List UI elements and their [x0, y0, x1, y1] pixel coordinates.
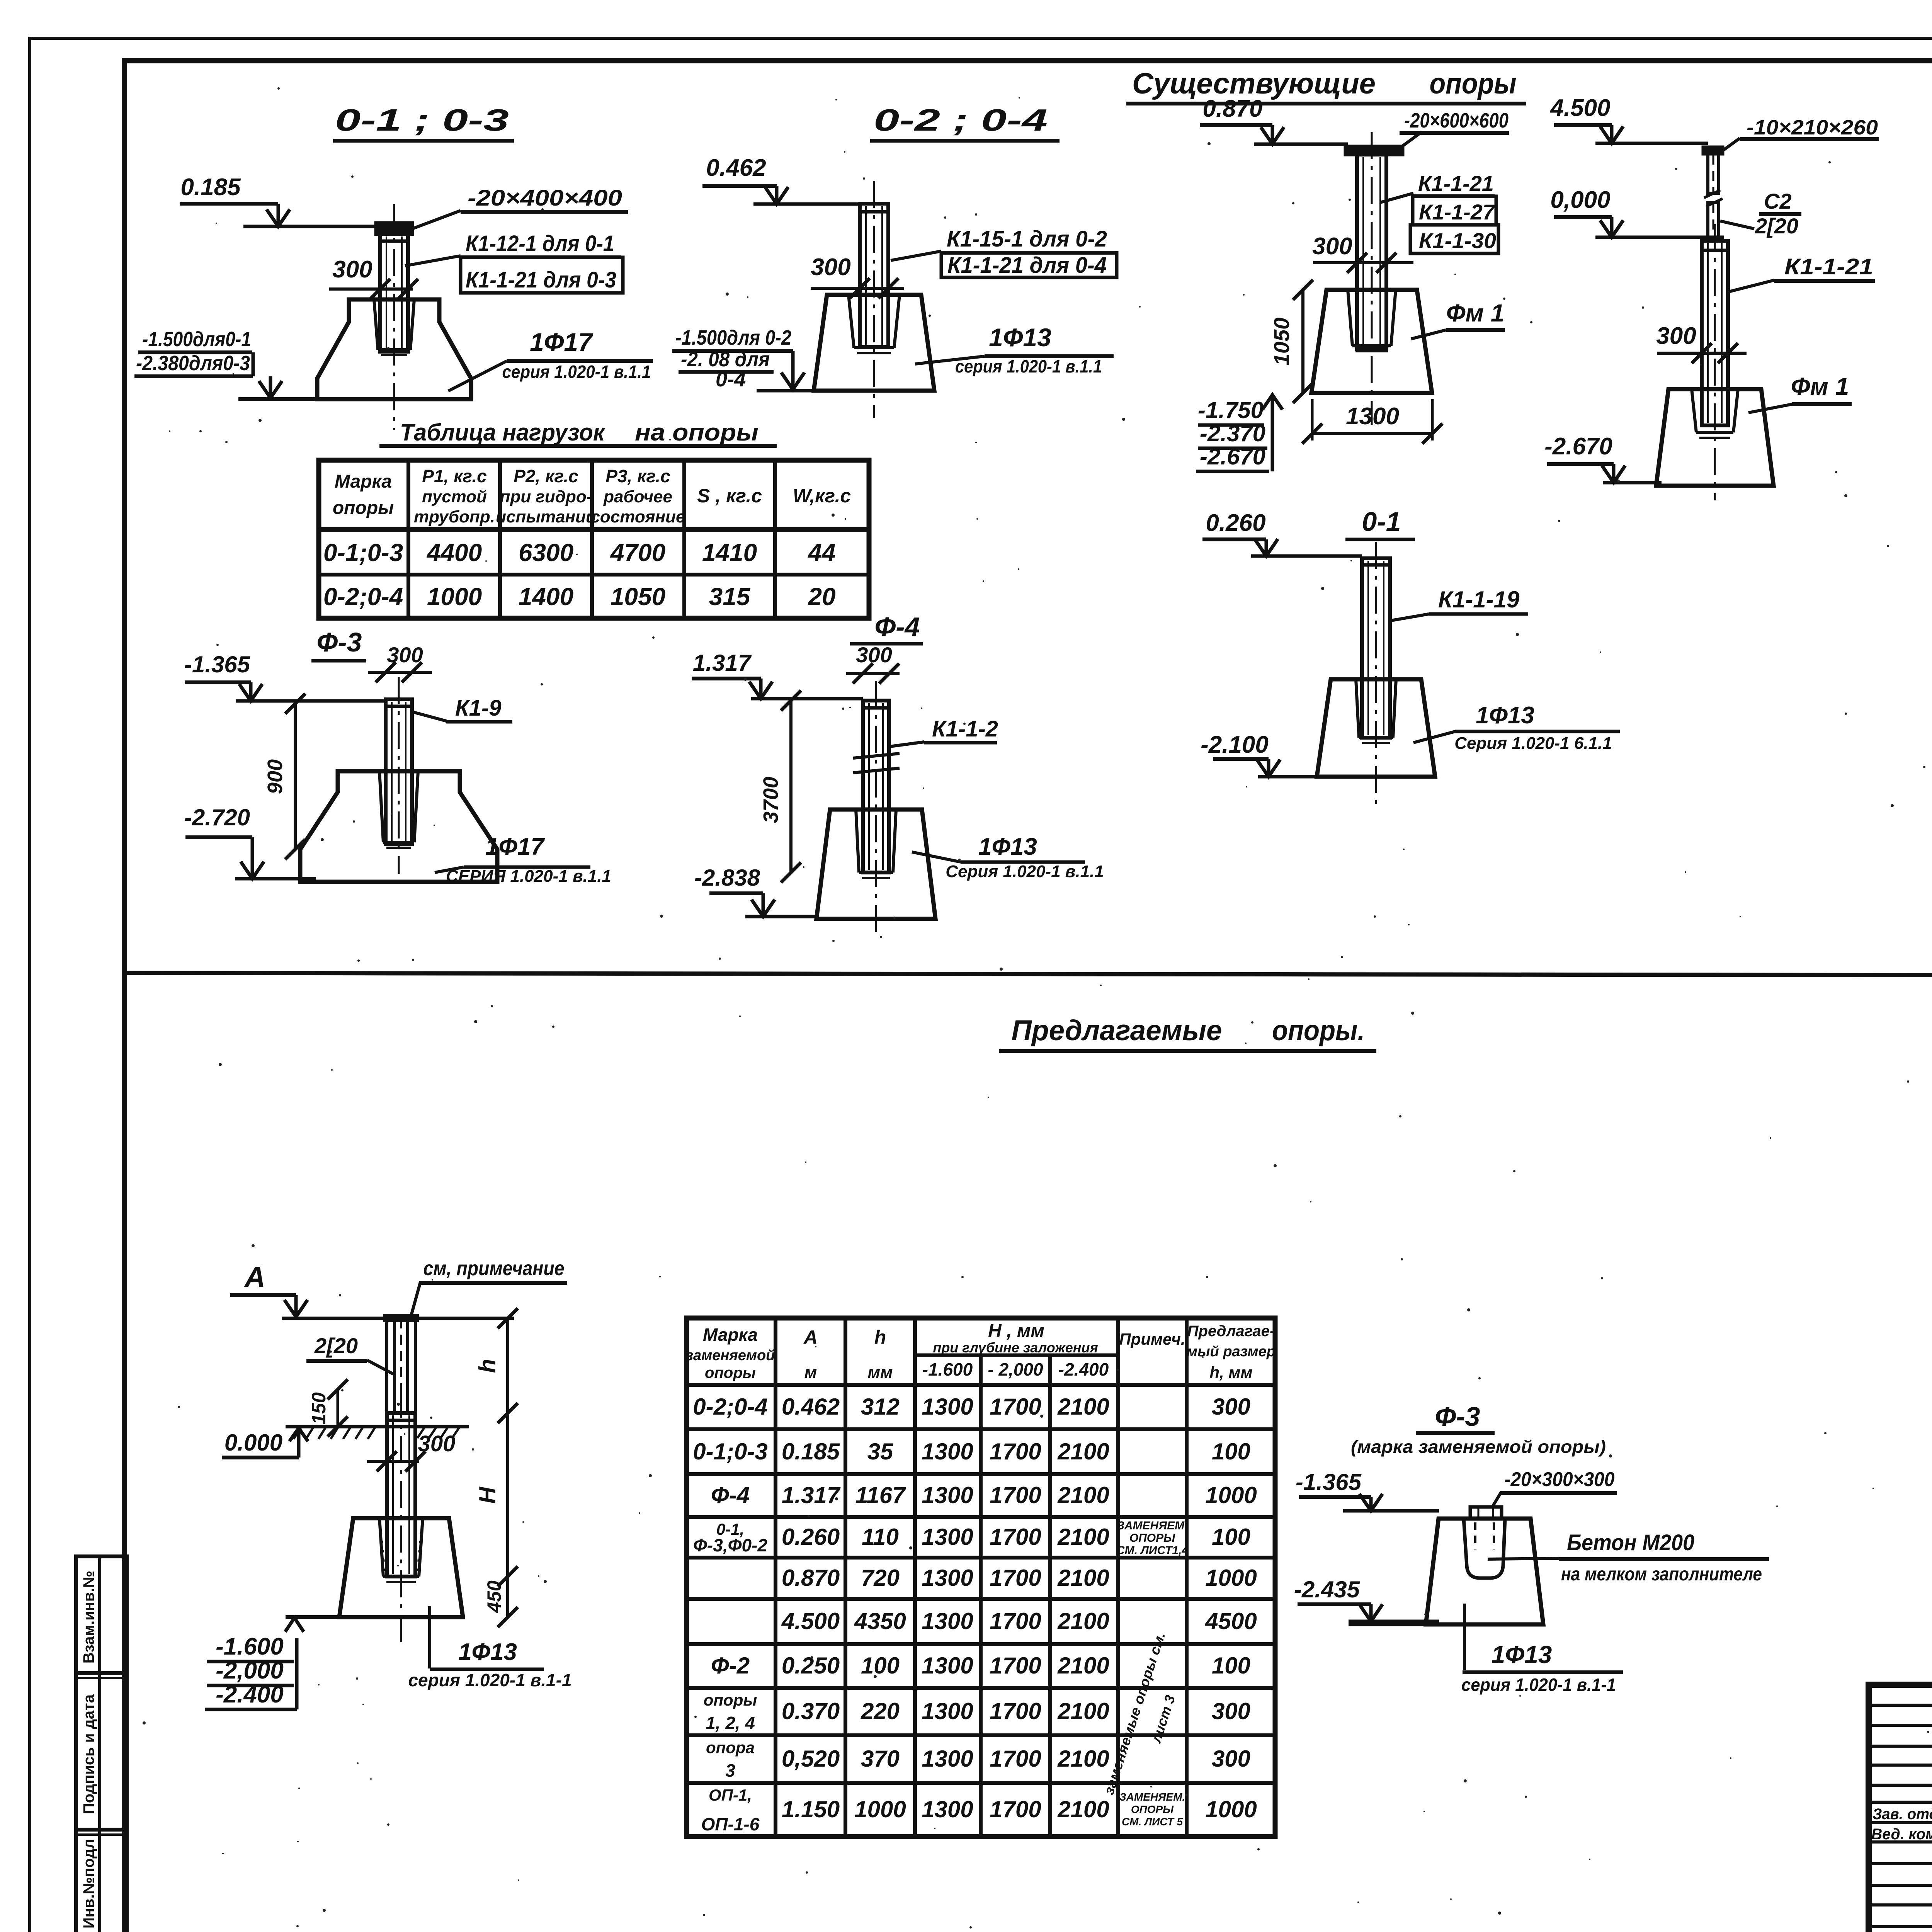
svg-text:опоры: опоры: [705, 1364, 756, 1381]
dimension 300 (O-2 column width): [811, 254, 904, 298]
svg-text:1000: 1000: [1205, 1796, 1257, 1822]
dimension 3700: [759, 690, 801, 883]
svg-text:W,кг.с: W,кг.с: [793, 485, 851, 507]
svg-text:1050: 1050: [611, 583, 665, 611]
svg-text:СМ. ЛИСТ 5: СМ. ЛИСТ 5: [1122, 1816, 1183, 1828]
svg-text:рабочее: рабочее: [603, 487, 672, 506]
label K1-12-1 для О-1 / К1-1-21 для О-3: [405, 231, 623, 293]
svg-text:Подпись и дата: Подпись и дата: [80, 1694, 97, 1814]
label K1-1-21 (drawing 4): [1729, 254, 1875, 292]
dimension 150 (A): [308, 1379, 348, 1437]
svg-text:-1.500для0-1: -1.500для0-1: [142, 328, 251, 351]
foundation 1Ф17 (Ф-3 upper): [300, 771, 497, 882]
elevation mark 0.185: [180, 174, 380, 226]
svg-text:1Ф13: 1Ф13: [989, 323, 1051, 352]
svg-text:СЕРИЯ 1.020-1 в.1.1: СЕРИЯ 1.020-1 в.1.1: [446, 867, 611, 886]
svg-text:при гидро-: при гидро-: [500, 487, 592, 506]
elevation -2.435: [1294, 1577, 1439, 1621]
svg-text:-2.380для0-3: -2.380для0-3: [136, 352, 250, 375]
svg-text:1700: 1700: [990, 1524, 1041, 1550]
svg-text:1Ф13: 1Ф13: [1476, 702, 1534, 729]
label Бетон М200: [1488, 1530, 1769, 1585]
svg-text:2100: 2100: [1057, 1608, 1109, 1634]
svg-text:1Ф13: 1Ф13: [978, 833, 1037, 860]
svg-text:100: 100: [1212, 1439, 1250, 1464]
dimension 1050: [1269, 280, 1313, 403]
load table (Таблица нагрузок): [319, 460, 869, 618]
svg-text:Р3, кг.с: Р3, кг.с: [605, 466, 670, 486]
svg-text:ОПОРЫ: ОПОРЫ: [1131, 1803, 1174, 1815]
foundation 1Ф13 (O-2;O-4): [814, 295, 934, 391]
svg-text:Серия 1.020-1 в.1.1: Серия 1.020-1 в.1.1: [946, 862, 1104, 881]
elevation -1.500/-2.380 (O-1;O-3): [134, 328, 319, 399]
svg-text:2100: 2100: [1057, 1565, 1109, 1591]
svg-text:К1-1-19: К1-1-19: [1438, 587, 1520, 612]
svg-text:1Ф17: 1Ф17: [485, 833, 545, 860]
svg-text:1300: 1300: [922, 1565, 973, 1591]
svg-text:Бетон М200: Бетон М200: [1567, 1530, 1694, 1555]
svg-text:-2.435: -2.435: [1294, 1577, 1361, 1602]
label -20x600x600: [1399, 109, 1509, 149]
svg-text:при глубине заложения: при глубине заложения: [933, 1340, 1098, 1355]
elevation -1.365 (bottom): [1296, 1469, 1439, 1511]
svg-text:Ф-3: Ф-3: [1435, 1401, 1480, 1432]
svg-text:2100: 2100: [1057, 1439, 1109, 1464]
svg-text:СМ. ЛИСТ1,4: СМ. ЛИСТ1,4: [1116, 1544, 1188, 1557]
section mark А: [230, 1261, 308, 1317]
svg-text:1.317: 1.317: [782, 1482, 841, 1508]
label 1Ф17 серия 1.020-1 в.1.1: [448, 328, 653, 391]
svg-text:900: 900: [264, 759, 287, 794]
label 1Ф13 серия 1.020-1 в.1.1 (O-2): [915, 323, 1114, 376]
svg-text:-1.600: -1.600: [216, 1633, 284, 1660]
svg-text:Инв.№подл: Инв.№подл: [80, 1839, 97, 1929]
elevation mark 0,000 (drawing 4): [1550, 187, 1724, 237]
elevations -1.600/-2.000/-2.400: [205, 1633, 297, 1709]
svg-text:-2.400: -2.400: [1058, 1359, 1109, 1379]
svg-text:серия 1.020-1 в.1.1: серия 1.020-1 в.1.1: [955, 356, 1102, 376]
svg-text:1300: 1300: [922, 1653, 973, 1679]
left margin stamp: [76, 1556, 127, 1932]
svg-text:150: 150: [308, 1392, 330, 1425]
svg-text:А: А: [244, 1261, 265, 1293]
labels K1-1-21 / K1-1-27 / K1-1-30: [1380, 171, 1498, 253]
label 1Ф13 (O-1): [1413, 702, 1620, 753]
drawing O-2;O-4 title: [870, 103, 1060, 141]
dimension 300 (A): [367, 1431, 455, 1471]
svg-text:1.317: 1.317: [693, 650, 752, 676]
svg-text:1000: 1000: [427, 583, 482, 611]
svg-text:2100: 2100: [1057, 1698, 1109, 1724]
elevation -2.100: [1201, 731, 1316, 777]
svg-text:опоры.: опоры.: [1272, 1014, 1365, 1046]
svg-text:К1-1-30: К1-1-30: [1419, 228, 1496, 253]
foundation 1Ф17 (O-1;O-3): [317, 299, 471, 399]
svg-text:см, примечание: см, примечание: [423, 1257, 565, 1280]
svg-text:Ф-4: Ф-4: [875, 612, 920, 642]
label C2 / 2C20: [1720, 189, 1801, 238]
section divider line: [124, 973, 1932, 976]
dimension 1300: [1302, 399, 1442, 444]
svg-text:1400: 1400: [519, 583, 573, 611]
label 1Ф13 (Ф-4): [912, 833, 1104, 881]
svg-text:0-1: 0-1: [1362, 507, 1401, 537]
svg-text:300: 300: [856, 643, 892, 667]
svg-text:1050: 1050: [1269, 318, 1294, 366]
elevation -2.720 (Ф-3): [184, 804, 316, 879]
svg-text:0.250: 0.250: [782, 1653, 840, 1679]
column K1-12-1 / K1-1-21: [380, 204, 408, 430]
svg-text:0,520: 0,520: [782, 1746, 840, 1772]
svg-text:4.500: 4.500: [781, 1608, 840, 1634]
svg-text:испытании: испытании: [496, 507, 596, 526]
steel post 2C20 upper segment: [1704, 154, 1723, 206]
drawing Ф-3 (upper) title: [311, 627, 366, 661]
title: Таблица нагрузок на опоры: [379, 419, 777, 446]
column K1-1-19: [1362, 542, 1390, 806]
svg-text:-20×300×300: -20×300×300: [1505, 1468, 1615, 1491]
column K1-1-2: [863, 681, 889, 939]
svg-text:35: 35: [867, 1439, 894, 1464]
column K1-1-21 (Фм1): [1357, 132, 1386, 425]
label Фм 1 (drawing 4): [1748, 372, 1852, 413]
svg-text:h, мм: h, мм: [1209, 1363, 1252, 1381]
svg-text:1700: 1700: [990, 1482, 1041, 1508]
svg-text:К1-15-1 для 0-2: К1-15-1 для 0-2: [947, 226, 1107, 252]
elevation mark 0.462: [702, 155, 860, 204]
svg-text:1Ф17: 1Ф17: [530, 328, 594, 356]
svg-text:К1-1-21: К1-1-21: [1784, 254, 1873, 279]
svg-text:-1.600: -1.600: [922, 1359, 973, 1379]
svg-text:(марка заменяемой опоры): (марка заменяемой опоры): [1351, 1437, 1606, 1457]
label Фм 1 (drawing 3): [1411, 299, 1505, 339]
label -10x210x260: [1723, 116, 1879, 151]
svg-text:Предлагае-: Предлагае-: [1187, 1323, 1275, 1340]
elevations -1.750/-2.370/-2.670: [1196, 395, 1282, 471]
svg-text:1, 2, 4: 1, 2, 4: [706, 1713, 755, 1733]
top level line (A): [282, 1317, 514, 1320]
elevation -2.670 (drawing 4): [1544, 433, 1662, 483]
svg-text:К1-9: К1-9: [455, 696, 501, 721]
base line (A): [285, 1617, 464, 1632]
svg-text:0.462: 0.462: [782, 1394, 840, 1420]
svg-text:h: h: [874, 1327, 886, 1348]
column break symbol (Ф-4): [853, 753, 900, 773]
svg-text:1300: 1300: [922, 1796, 973, 1822]
svg-text:-1.365: -1.365: [1296, 1469, 1362, 1495]
foundation 1Ф13 (bottom Ф-3): [1426, 1519, 1543, 1624]
dimension 900: [264, 694, 305, 859]
svg-text:1000: 1000: [854, 1796, 906, 1822]
label -20x300x300: [1492, 1468, 1617, 1507]
svg-text:1700: 1700: [990, 1796, 1041, 1822]
svg-text:2100: 2100: [1057, 1524, 1109, 1550]
svg-text:4350: 4350: [854, 1608, 906, 1634]
svg-text:1700: 1700: [990, 1746, 1041, 1772]
svg-text:состояние: состояние: [590, 507, 685, 526]
replacement supports table: [686, 1318, 1276, 1837]
svg-text:- 2,000: - 2,000: [988, 1359, 1043, 1379]
svg-text:2100: 2100: [1057, 1653, 1109, 1679]
svg-text:100: 100: [1212, 1653, 1250, 1679]
svg-text:Взам.инв.№: Взам.инв.№: [80, 1571, 97, 1663]
svg-text:20: 20: [808, 583, 835, 611]
column (A): [387, 1391, 415, 1646]
post top plate -10x210x260: [1703, 147, 1723, 154]
svg-text:3700: 3700: [759, 777, 782, 823]
svg-text:-2. 08 для: -2. 08 для: [681, 348, 770, 371]
svg-text:720: 720: [861, 1565, 900, 1591]
svg-text:К1-1-2: К1-1-2: [932, 716, 998, 742]
svg-text:1300: 1300: [922, 1524, 973, 1550]
svg-text:-20×600×600: -20×600×600: [1404, 109, 1509, 132]
svg-text:-10×210×260: -10×210×260: [1747, 116, 1878, 139]
svg-text:300: 300: [1656, 323, 1696, 349]
foundation 1Ф13 (O-1): [1317, 679, 1435, 777]
svg-text:1167: 1167: [855, 1482, 906, 1508]
svg-text:370: 370: [861, 1746, 900, 1772]
svg-text:ЗАМЕНЯЕМ.: ЗАМЕНЯЕМ.: [1119, 1791, 1185, 1803]
label K1-9: [412, 696, 512, 722]
svg-text:на мелком заполнителе: на мелком заполнителе: [1561, 1564, 1762, 1585]
title: Предлагаемые опоры: [999, 1014, 1376, 1051]
svg-text:-2.370: -2.370: [1200, 420, 1265, 446]
svg-text:серия 1.020-1 в.1.1: серия 1.020-1 в.1.1: [502, 362, 651, 382]
svg-text:300: 300: [1212, 1394, 1250, 1420]
dimension 300 (column width): [329, 256, 418, 299]
svg-text:-2.670: -2.670: [1200, 444, 1265, 469]
elevation mark 4.500: [1549, 95, 1708, 143]
svg-text:0,000: 0,000: [1550, 187, 1610, 213]
svg-text:h: h: [474, 1359, 500, 1373]
svg-text:0.870: 0.870: [782, 1565, 840, 1591]
plate -20x300x300: [1470, 1507, 1502, 1519]
right dimension chain (A): [474, 1308, 518, 1627]
svg-text:300: 300: [1212, 1698, 1250, 1724]
svg-text:м: м: [804, 1363, 817, 1382]
svg-text:Р1, кг.с: Р1, кг.с: [422, 466, 486, 486]
dimension 300 (Фм1 column): [1312, 233, 1413, 273]
svg-text:трубопр.: трубопр.: [414, 507, 495, 526]
svg-text:2100: 2100: [1057, 1796, 1109, 1822]
elevation 0.000 (A): [222, 1428, 308, 1458]
label -20x400x400: [412, 185, 628, 229]
svg-text:0.370: 0.370: [782, 1698, 840, 1724]
svg-text:опоры: опоры: [333, 498, 394, 518]
svg-text:220: 220: [861, 1698, 900, 1724]
elevation 0.260: [1202, 510, 1362, 556]
svg-text:Зав. отд: Зав. отд: [1872, 1806, 1932, 1823]
svg-text:1300: 1300: [1346, 403, 1399, 430]
foundation 1Ф13 (Ф-4): [816, 810, 935, 919]
svg-text:Предлагаемые: Предлагаемые: [1012, 1014, 1222, 1046]
svg-text:Вед. ком.: Вед. ком.: [1871, 1826, 1932, 1843]
svg-text:4400: 4400: [426, 539, 482, 566]
svg-text:2100: 2100: [1057, 1746, 1109, 1772]
channel post 2[20 (A): [385, 1315, 417, 1413]
elevation -1.365 (Ф-3): [184, 651, 386, 701]
label K1-1-19: [1391, 587, 1528, 621]
svg-text:300: 300: [1212, 1746, 1250, 1772]
svg-text:Таблица нагрузок: Таблица нагрузок: [400, 419, 605, 446]
svg-text:2100: 2100: [1057, 1394, 1109, 1420]
svg-text:Н: Н: [474, 1486, 500, 1504]
svg-text:К1-12-1 для 0-1: К1-12-1 для 0-1: [466, 231, 614, 256]
column O-1 top plate -20x400x400: [376, 223, 412, 234]
svg-text:на опоры: на опоры: [635, 419, 759, 446]
svg-text:-1.500для 0-2: -1.500для 0-2: [675, 326, 791, 349]
svg-text:Фм 1: Фм 1: [1446, 299, 1505, 327]
svg-text:опоры: опоры: [704, 1691, 757, 1709]
svg-text:0-2;0-4: 0-2;0-4: [323, 583, 403, 611]
svg-text:0.185: 0.185: [180, 174, 241, 201]
svg-text:К1-1-21: К1-1-21: [1418, 171, 1494, 196]
svg-text:0-2 ; 0-4: 0-2 ; 0-4: [874, 103, 1048, 137]
steel post 2C20 lower segment: [1708, 202, 1719, 240]
drawing O-1;O-3 title: [333, 103, 514, 141]
svg-text:ЗАМЕНЯЕМ.: ЗАМЕНЯЕМ.: [1117, 1519, 1188, 1532]
dimension 300 (drawing 4): [1656, 323, 1747, 363]
svg-text:серия 1.020-1 в.1-1: серия 1.020-1 в.1-1: [408, 1670, 571, 1690]
svg-text:ОП-1-6: ОП-1-6: [701, 1814, 760, 1834]
svg-text:Ф-4: Ф-4: [711, 1482, 750, 1508]
svg-text:1Ф13: 1Ф13: [1492, 1641, 1552, 1668]
ground line (A): [286, 1427, 469, 1439]
svg-text:1300: 1300: [922, 1482, 973, 1508]
svg-text:опоры: опоры: [1430, 67, 1517, 100]
label 1Ф17 (Ф-3 upper): [435, 833, 611, 886]
foundation 1Ф13 (A): [339, 1518, 463, 1617]
svg-text:1300: 1300: [922, 1439, 973, 1464]
svg-text:-2.838: -2.838: [694, 865, 760, 891]
svg-text:опора: опора: [706, 1738, 755, 1757]
svg-text:6300: 6300: [519, 539, 573, 566]
svg-text:-2.400: -2.400: [216, 1681, 284, 1708]
svg-text:450: 450: [483, 1580, 505, 1613]
svg-text:100: 100: [861, 1653, 900, 1679]
svg-text:Фм 1: Фм 1: [1791, 372, 1849, 400]
svg-text:0.185: 0.185: [782, 1439, 840, 1464]
label 1Ф13 (bottom Ф-3): [1461, 1604, 1623, 1695]
svg-text:1300: 1300: [922, 1698, 973, 1724]
svg-text:3: 3: [725, 1760, 735, 1781]
label K1-15-1 для О-2 / К1-1-21 для О-4: [891, 226, 1117, 278]
elevation mark 0.870: [1200, 95, 1348, 144]
svg-text:4700: 4700: [610, 539, 665, 566]
svg-text:0-1 ; 0-3: 0-1 ; 0-3: [335, 103, 509, 137]
svg-text:Серия 1.020-1 6.1.1: Серия 1.020-1 6.1.1: [1454, 734, 1612, 753]
label см. примечание: [410, 1257, 567, 1318]
elevation -1.500/-2.08 (O-2;O-4): [672, 326, 814, 391]
svg-text:0-4: 0-4: [716, 368, 746, 391]
svg-text:4500: 4500: [1205, 1608, 1257, 1634]
svg-text:К1-1-27: К1-1-27: [1419, 200, 1496, 224]
svg-text:0.260: 0.260: [1206, 510, 1265, 536]
svg-text:S , кг.с: S , кг.с: [697, 485, 762, 507]
svg-text:1.150: 1.150: [782, 1796, 840, 1822]
svg-text:Р2, кг.с: Р2, кг.с: [514, 466, 578, 486]
svg-text:1700: 1700: [990, 1653, 1041, 1679]
svg-text:1000: 1000: [1205, 1482, 1257, 1508]
svg-text:ОП-1,: ОП-1,: [709, 1786, 752, 1804]
column K1-1-21 (drawing 4): [1702, 224, 1728, 500]
svg-text:0-1;0-3: 0-1;0-3: [693, 1439, 767, 1464]
svg-text:-2.720: -2.720: [184, 804, 250, 830]
svg-text:пустой: пустой: [422, 487, 487, 506]
label 2[20 (A): [306, 1333, 393, 1374]
svg-text:110: 110: [862, 1524, 899, 1550]
column K1-15-1 / K1-1-21: [860, 181, 888, 418]
label K1-1-2: [890, 716, 998, 747]
svg-text:1410: 1410: [702, 539, 757, 566]
svg-text:300: 300: [1312, 233, 1352, 260]
elevation 1.317 (Ф-4): [692, 650, 863, 699]
svg-text:1700: 1700: [990, 1439, 1041, 1464]
column K1-9: [386, 677, 412, 874]
svg-text:2100: 2100: [1057, 1482, 1109, 1508]
svg-text:1700: 1700: [990, 1565, 1041, 1591]
svg-text:-1.365: -1.365: [184, 651, 251, 677]
svg-text:315: 315: [709, 583, 751, 611]
svg-text:1Ф13: 1Ф13: [458, 1639, 517, 1665]
svg-text:-2.100: -2.100: [1201, 731, 1269, 758]
drawing Ф-4 title: [850, 612, 923, 644]
svg-text:Марка: Марка: [335, 471, 392, 492]
svg-text:2[20: 2[20: [1755, 214, 1798, 238]
svg-text:0.870: 0.870: [1202, 95, 1262, 122]
svg-text:300: 300: [332, 256, 372, 283]
column top plate -20x600x600: [1345, 146, 1403, 155]
title: Существующие опоры: [1126, 67, 1526, 104]
label 1Ф13 (A): [408, 1606, 571, 1690]
svg-text:1700: 1700: [990, 1698, 1041, 1724]
foundation Фм1 (drawing 3): [1311, 290, 1432, 393]
drawing Ф-3 (bottom) title: [1351, 1401, 1606, 1457]
svg-text:-2.670: -2.670: [1544, 433, 1612, 460]
svg-text:Ф-3: Ф-3: [317, 627, 362, 657]
foundation Фм1 (drawing 4): [1656, 389, 1774, 486]
base line (bottom Ф-3): [1349, 1623, 1544, 1626]
svg-text:100: 100: [1212, 1524, 1250, 1550]
svg-text:2[20: 2[20: [314, 1333, 358, 1358]
svg-text:1300: 1300: [922, 1394, 973, 1420]
svg-text:300: 300: [811, 254, 850, 281]
svg-text:0-1;0-3: 0-1;0-3: [323, 539, 403, 566]
svg-text:К1-1-21 для 0-4: К1-1-21 для 0-4: [947, 253, 1107, 278]
svg-text:серия 1.020-1 в.1-1: серия 1.020-1 в.1-1: [1461, 1675, 1616, 1695]
dotted socket fill (A): [380, 1522, 422, 1573]
svg-text:С2: С2: [1764, 189, 1792, 213]
svg-text:1300: 1300: [922, 1608, 973, 1634]
svg-text:мм: мм: [867, 1363, 893, 1382]
svg-text:Ф-2: Ф-2: [711, 1653, 750, 1679]
svg-text:1700: 1700: [990, 1608, 1041, 1634]
svg-text:Примеч.: Примеч.: [1119, 1330, 1185, 1348]
svg-text:-2,000: -2,000: [216, 1657, 284, 1684]
svg-text:44: 44: [807, 539, 835, 566]
svg-text:А: А: [803, 1327, 818, 1348]
svg-text:1700: 1700: [990, 1394, 1041, 1420]
svg-text:-20×400×400: -20×400×400: [468, 185, 622, 211]
svg-text:0.000: 0.000: [224, 1430, 282, 1456]
svg-text:312: 312: [861, 1394, 900, 1420]
svg-text:Ф-3,Ф0-2: Ф-3,Ф0-2: [693, 1535, 767, 1555]
svg-text:ОПОРЫ: ОПОРЫ: [1129, 1532, 1175, 1544]
title block (штамп): [1869, 1685, 1932, 1932]
drawing O-1 title: [1345, 507, 1415, 539]
svg-text:Н , мм: Н , мм: [988, 1321, 1044, 1341]
svg-text:0.462: 0.462: [706, 155, 766, 181]
